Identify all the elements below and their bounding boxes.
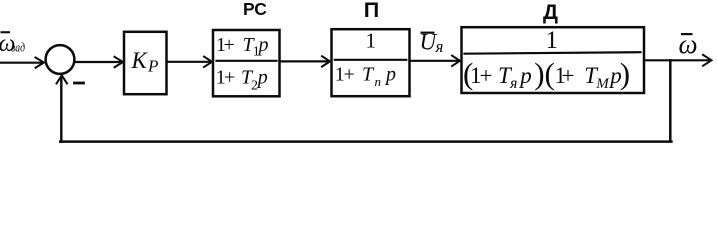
- block D (motor): [462, 27, 645, 93]
- PC denominator 1+T2p: [216, 66, 268, 93]
- wire PC to P: [280, 60, 329, 62]
- feedback tap junction: [669, 60, 672, 140]
- svg-text:p: p: [256, 66, 268, 88]
- wire P to D: [410, 60, 459, 62]
- arrowhead into PC: [204, 57, 212, 67]
- svg-text:(: (: [545, 56, 555, 91]
- svg-text:p: p: [384, 64, 396, 86]
- svg-text:+: +: [224, 66, 235, 88]
- P fraction bar: [335, 59, 407, 61]
- svg-text:РС: РС: [243, 0, 267, 19]
- svg-text:p: p: [518, 63, 532, 88]
- arrowhead into P block: [322, 56, 330, 66]
- svg-text:+: +: [344, 64, 355, 86]
- summing junction S1: [46, 45, 75, 74]
- arrowhead into KP: [115, 57, 124, 67]
- svg-text:): ): [620, 56, 630, 91]
- D denominator (1+T_ya p)(1+T_M p): [463, 56, 630, 92]
- svg-text:я: я: [435, 37, 444, 56]
- svg-text:П: П: [364, 0, 379, 22]
- svg-text:+: +: [480, 63, 493, 88]
- PC fraction bar: [217, 60, 277, 62]
- svg-text:зад: зад: [11, 40, 26, 55]
- feedback left riser wire: [60, 77, 62, 142]
- node omega output label: [679, 29, 698, 59]
- svg-text:п: п: [375, 74, 382, 89]
- block PC (speed regulator): [213, 30, 280, 96]
- feedback bottom wire: [60, 140, 671, 143]
- svg-text:K: K: [131, 48, 149, 73]
- wire summing junction to KP: [76, 61, 122, 63]
- wire KP to PC: [167, 61, 211, 63]
- arrowhead into summing junction: [36, 58, 45, 68]
- wire input to summing junction: [0, 62, 43, 64]
- svg-text:p: p: [257, 34, 269, 56]
- svg-text:+: +: [224, 34, 235, 56]
- svg-text:ω: ω: [679, 29, 698, 59]
- svg-text:P: P: [147, 57, 158, 76]
- block P (converter): [332, 29, 410, 96]
- svg-text:я: я: [509, 75, 517, 92]
- node omega_zad input label: [0, 31, 25, 57]
- block KP (regulator gain): [124, 32, 167, 94]
- svg-text:+: +: [562, 63, 575, 88]
- arrowhead into D block: [452, 56, 460, 66]
- svg-text:1: 1: [546, 27, 559, 54]
- node U_ya label: [420, 30, 444, 57]
- PC numerator 1+T1p: [216, 34, 269, 60]
- svg-text:Д: Д: [543, 1, 558, 24]
- minus sign at summing junction: [75, 82, 84, 85]
- arrowhead into summing junction bottom: [57, 75, 68, 83]
- svg-text:1: 1: [366, 29, 377, 53]
- svg-text:М: М: [595, 76, 610, 92]
- KP value label: [131, 48, 159, 76]
- D fraction bar: [465, 52, 641, 54]
- output arrowhead: [703, 55, 712, 66]
- svg-text:T: T: [362, 64, 375, 86]
- P denominator 1+T_P p: [335, 64, 396, 89]
- wire D to output: [644, 59, 709, 61]
- svg-text:): ): [534, 56, 544, 91]
